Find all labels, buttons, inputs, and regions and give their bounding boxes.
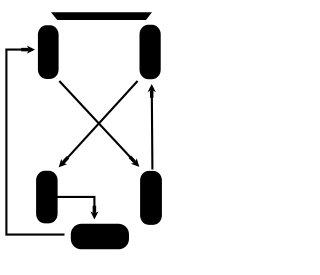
spare tire bbox=[71, 224, 129, 250]
arrow spare to front-left: route line bbox=[6, 50, 64, 235]
tire rear-right bbox=[140, 171, 162, 225]
windshield bar bbox=[51, 12, 152, 20]
arrow rear-right to front-right: line bbox=[151, 90, 154, 170]
arrow front-right to rear-left: line bbox=[62, 81, 138, 164]
arrow rear-right to front-right: shaft bulge bbox=[150, 91, 154, 98]
tire rear-left bbox=[36, 171, 58, 224]
arrow rear-left to spare: head bbox=[90, 211, 98, 219]
tire front-right bbox=[140, 25, 161, 79]
arrow rear-left to spare: route line bbox=[58, 197, 95, 215]
arrow spare to front-left: shaft bulge bbox=[21, 48, 28, 52]
arrow rear-right to front-right: head bbox=[148, 84, 156, 92]
arrow front-left to rear-right: head bbox=[131, 158, 140, 167]
arrow front-right to rear-left: head bbox=[59, 159, 67, 168]
arrow spare to front-left: head bbox=[27, 46, 35, 54]
arrow rear-left to spare: shaft bulge bbox=[93, 206, 97, 213]
arrow front-left to rear-right: shaft bulge bbox=[130, 157, 135, 162]
arrow front-right to rear-left: shaft bulge bbox=[63, 157, 68, 162]
tire front-left bbox=[38, 25, 59, 79]
arrow front-left to rear-right: line bbox=[59, 81, 136, 163]
